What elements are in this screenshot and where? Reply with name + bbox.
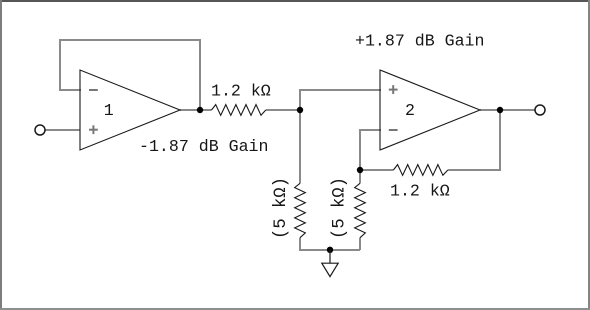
svg-text:1.2 kΩ: 1.2 kΩ: [390, 182, 450, 201]
wire feedback resistor left lead to node: [360, 169, 393, 171]
wire feedback loop op-amp 1: [60, 40, 200, 110]
junction node at op-amp 2 output: [497, 107, 503, 113]
resistor R3 zigzag (left 5k vertical): [295, 183, 306, 237]
border frame: [0, 0, 590, 2]
op-amp U2: [380, 70, 480, 150]
junction node at ground rail: [327, 247, 333, 253]
wire input to op-amp 1 +: [46, 129, 81, 131]
op-amp U2 minus sign: [389, 129, 398, 131]
junction node at op-amp 2 - branch: [357, 167, 363, 173]
svg-text:2: 2: [405, 101, 415, 120]
op-amp U1 plus sign: [89, 125, 98, 134]
op-amp U1: [80, 70, 180, 150]
svg-text:-1.87 dB Gain: -1.87 dB Gain: [139, 137, 268, 156]
wire node down to R3: [299, 110, 301, 183]
wire R4 bottom lead: [359, 238, 361, 250]
wire op-amp 2 output: [480, 109, 535, 111]
op-amp U2 plus sign: [389, 85, 398, 94]
wire node to op-amp 2 +: [300, 90, 381, 110]
wire R3 bottom lead: [300, 238, 360, 250]
wire node to op-amp 2 - input: [360, 130, 381, 170]
wire output node down to feedback row: [448, 110, 500, 170]
ground: [322, 250, 338, 277]
junction node at op-amp 2 + branch: [297, 107, 303, 113]
svg-text:+1.87 dB Gain: +1.87 dB Gain: [355, 32, 484, 51]
op-amp U1 minus sign: [89, 89, 98, 91]
svg-text:(5 kΩ): (5 kΩ): [272, 177, 291, 239]
resistor R1 zigzag: [212, 105, 266, 116]
wire op-amp 1 output: [180, 109, 212, 111]
output terminal: [535, 105, 545, 115]
wire resistor R1 right lead: [266, 109, 300, 111]
wire node to R4 top lead: [359, 170, 361, 183]
junction node at op-amp 1 output: [197, 107, 203, 113]
resistor R4 zigzag (right 5k vertical): [355, 183, 366, 237]
svg-text:(5 kΩ): (5 kΩ): [331, 177, 350, 239]
input terminal: [35, 125, 45, 135]
svg-text:1.2 kΩ: 1.2 kΩ: [211, 81, 271, 100]
resistor R2 zigzag (feedback): [393, 165, 447, 176]
svg-text:1: 1: [104, 101, 114, 120]
